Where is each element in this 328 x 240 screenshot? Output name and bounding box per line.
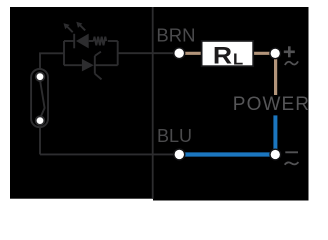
wire brown RL to node2 xyxy=(253,52,272,55)
node left junction xyxy=(63,41,65,65)
LED cathode bar xyxy=(73,34,75,49)
node 3 (BLU left) xyxy=(173,148,185,160)
wire resistor to junction xyxy=(108,40,118,42)
black panel left (sensor figure) xyxy=(10,7,153,199)
svg-text:BLU: BLU xyxy=(157,126,192,146)
wire LED to resistor xyxy=(89,40,94,42)
node 2 (BRN right, +) xyxy=(269,47,281,59)
LED light arrow 2 xyxy=(79,24,85,30)
node 1 (BRN left) xyxy=(173,47,185,59)
reed switch blade xyxy=(40,80,45,118)
AC tilde at minus terminal xyxy=(285,162,299,165)
reed switch body xyxy=(31,69,48,127)
AC tilde at plus terminal xyxy=(285,61,298,65)
sensor box right border xyxy=(152,7,154,199)
node right junction xyxy=(117,41,119,65)
wire brown vertical to power xyxy=(274,56,277,95)
wire BLU rail xyxy=(40,153,175,155)
minus symbol xyxy=(285,151,298,153)
wire brown node1 to RL xyxy=(184,52,202,55)
wire zener to junction xyxy=(95,64,118,66)
wire blue BLU rail xyxy=(184,152,271,156)
svg-text:R: R xyxy=(213,42,232,69)
black panel right (wiring figure) xyxy=(153,7,309,201)
reed contact bottom xyxy=(36,116,45,125)
wire blue vertical from power xyxy=(273,115,277,150)
wire top branch to LED xyxy=(64,40,74,42)
LED triangle D1 xyxy=(76,34,89,49)
zener diode Z1 xyxy=(82,59,94,71)
svg-text:L: L xyxy=(233,51,243,68)
wire bottom branch to zener xyxy=(64,64,82,66)
node 4 (BLU right, -) xyxy=(269,149,281,161)
reed contact top xyxy=(36,72,45,81)
resistor R1 zigzag xyxy=(94,37,107,46)
svg-text:POWER: POWER xyxy=(233,94,310,115)
wire reed top to junction xyxy=(40,53,64,70)
plus symbol xyxy=(284,46,295,57)
svg-text:BRN: BRN xyxy=(156,24,195,45)
LED light arrow 1 xyxy=(67,26,73,32)
wire reed bottom xyxy=(39,127,41,154)
resistor RL box xyxy=(202,41,254,66)
wire BRN rail xyxy=(118,52,175,54)
